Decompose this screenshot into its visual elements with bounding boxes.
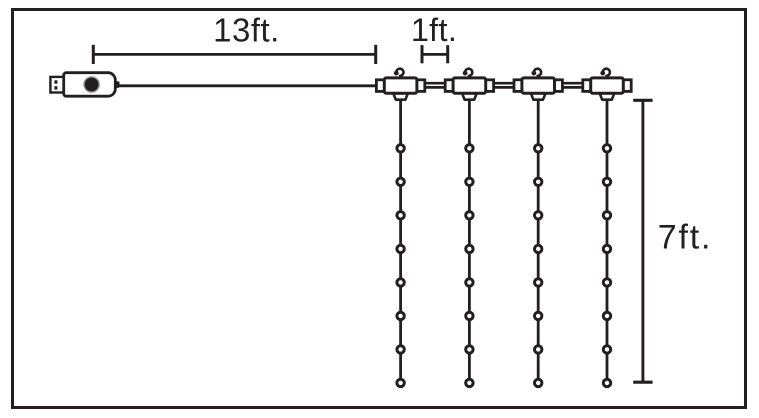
svg-text:7ft.: 7ft. xyxy=(658,219,712,257)
clip 3 xyxy=(514,78,562,100)
clip 2 hook xyxy=(464,69,473,79)
clip 4 xyxy=(583,78,631,100)
drop string 3 xyxy=(537,99,540,383)
beads string 3 xyxy=(535,145,542,387)
beads string 2 xyxy=(466,145,473,387)
controller cable nub xyxy=(114,81,120,88)
beads string 1 xyxy=(397,145,404,387)
dimension line 7ft xyxy=(633,100,652,382)
dimension line 13ft xyxy=(93,45,375,64)
svg-text:1ft.: 1ft. xyxy=(411,12,457,48)
dimension line 1ft xyxy=(422,45,448,63)
controller button xyxy=(85,78,99,92)
twin wire between clip 1 and clip 2 xyxy=(425,83,445,87)
clip 1 xyxy=(376,78,424,100)
drop string 1 xyxy=(399,99,402,383)
drop string 4 xyxy=(606,99,609,383)
beads string 4 xyxy=(603,145,610,387)
twin wire between clip 2 and clip 3 xyxy=(494,83,514,87)
wire from controller to first clip xyxy=(114,84,378,87)
clip 3 hook xyxy=(533,69,542,79)
clip 4 hook xyxy=(601,69,610,79)
usb contact pins xyxy=(54,80,57,83)
clip 1 hook xyxy=(395,69,404,79)
clip 2 xyxy=(445,78,493,100)
controller body xyxy=(64,73,116,97)
drop string 2 xyxy=(468,99,471,383)
twin wire between clip 3 and clip 4 xyxy=(562,83,582,87)
usb plug xyxy=(50,77,65,93)
svg-text:13ft.: 13ft. xyxy=(213,12,280,49)
